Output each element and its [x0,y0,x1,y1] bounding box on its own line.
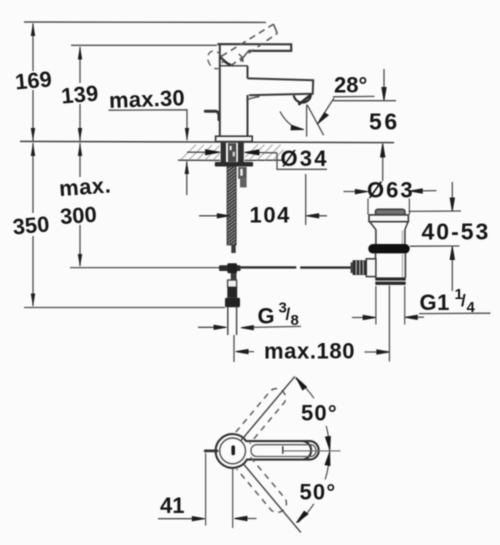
arrow 169 top (up) [31,23,35,36]
pop-up horizontal rod [241,266,297,268]
stud tip [231,245,235,253]
pull-rod knob on left [205,111,219,119]
arrow 139 bottom (down) [78,128,82,141]
bottom rim bands [375,277,405,280]
arc arrow onto vertical line [280,112,299,129]
dimension max.300 line [79,143,81,177]
link rod below joint [231,273,237,280]
knurled rod socket [353,260,367,275]
svg-text:28°: 28° [334,73,367,98]
svg-text:G: G [258,304,275,329]
svg-text:169: 169 [14,66,53,94]
svg-text:300: 300 [59,202,97,230]
dimension 139 line [79,47,81,83]
wire: deck underside left [178,159,220,161]
dimension max.30 lower tail [186,162,188,196]
wire: top extension line (overall height ref) [24,21,266,23]
O-ring seal [368,244,409,253]
flange taper [370,222,376,230]
drain body upper [375,230,377,245]
leader arrow onto angled line [320,98,335,121]
hose nut dark [227,287,237,298]
wire: 350 bottom reference line [24,307,225,309]
svg-text:41: 41 [160,493,184,518]
dashed lever at -50deg (down) [237,457,290,516]
svg-text:56: 56 [369,109,400,135]
faucet body circle + lever outline [216,434,312,468]
inner lever face line [251,445,316,457]
svg-text:50°: 50° [301,401,338,426]
spout [248,78,314,95]
flange [369,215,408,222]
drain body lower [375,253,377,277]
washer under deck [215,162,253,167]
centre pin [231,445,235,455]
inner ring [220,438,246,464]
wire: max.300 bottom reference line [70,267,219,269]
svg-text:Ø63: Ø63 [367,178,415,203]
plug cap [375,209,405,215]
G3/8 connection tube [227,307,229,335]
lever base / head curves [220,57,233,66]
grip mark [282,446,284,454]
shank through hole [221,143,226,163]
arrow max30 top (down to deck) [185,128,189,141]
wire: spout outlet height reference [333,100,396,102]
dimension 350 line [32,143,34,213]
50deg ray down [244,464,301,532]
svg-text:max.30: max.30 [109,85,186,113]
wire: max.180 extension lines [233,335,235,362]
deck hatching left [181,145,220,161]
angled 28deg stream line [307,105,323,135]
arrow 350 top (up) [31,143,35,156]
side connector stem [366,259,376,277]
wire: 139 extension line [71,44,217,46]
arrow 350 bottom (down) [31,294,35,307]
wire: G1 1/4 extension lines [375,286,377,325]
svg-text:G1: G1 [420,290,450,315]
threaded stud [227,167,236,246]
svg-text:max.: max. [58,172,112,201]
faucet body column [219,45,248,137]
vertical datum line at spout mouth [306,105,308,137]
arc arrowheads near centreline [325,436,330,450]
svg-text:Ø34: Ø34 [281,146,329,171]
wire: deck underside right [245,159,285,161]
deck hatching right [245,144,283,160]
pop-up linkage joint [219,265,241,271]
aerator / spout mouth [294,95,311,102]
svg-text:139: 139 [60,80,99,108]
base plate [216,136,253,141]
arrow max30 bottom (up to deck underside) [185,161,189,174]
coupling [228,280,237,287]
arc arrowhead at bottom ray [296,511,308,523]
svg-text:max.180: max.180 [264,339,355,364]
svg-text:/: / [461,291,466,310]
arc arrowhead at top ray [296,377,307,390]
dashed open-position lever [205,24,277,71]
wire: 104 right extension line [305,174,307,225]
angular arc (broken at labels) [295,378,314,398]
arrow 169 bottom (down) [31,128,35,141]
svg-text:104: 104 [250,203,292,228]
wire: Ø63 extension lines [367,199,369,215]
lever handle (closed) [217,44,291,51]
dashed lever at +50deg (up) [236,385,289,444]
svg-text:50°: 50° [300,480,337,505]
arrow 139 top (up) [78,46,82,60]
pop-up rod guide bracket [238,167,246,179]
wire: deck top surface line [20,141,394,142]
arrow max300 top (up) [78,143,82,156]
svg-text:350: 350 [12,211,51,239]
spout stub left [205,449,217,452]
lever centreline [283,450,341,452]
dimension 169 line [32,24,34,72]
50deg ray up [241,376,295,440]
svg-text:40-53: 40-53 [422,219,491,245]
arrowheads left column [31,23,189,307]
wire: 41 extension lines [205,453,207,526]
arrow max300 bottom (down) [78,254,82,267]
spout fillet at body [246,97,259,101]
